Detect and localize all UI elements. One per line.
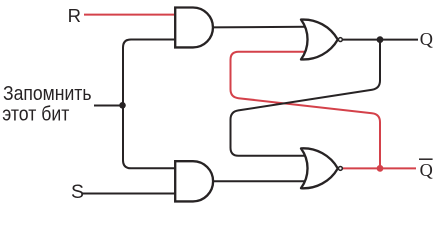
label Q-bar: overline xyxy=(419,158,433,160)
svg-text:S: S xyxy=(71,181,84,203)
nor-gate G4 inversion bubble xyxy=(338,166,342,170)
svg-text:Q: Q xyxy=(420,160,433,180)
svg-text:R: R xyxy=(68,5,81,26)
wire from label Запомнить этот бит to branch vertical xyxy=(94,105,123,107)
wire input branch (black): AND1 lower input down to AND2 upper input xyxy=(123,40,179,169)
nor-gate G3 inversion bubble xyxy=(338,38,342,42)
wire AND2 output to NOR2 lower input xyxy=(209,180,306,182)
wire red feedback: Q-bar node to NOR1 lower input xyxy=(231,52,381,169)
svg-text:этот бит: этот бит xyxy=(2,103,69,125)
junction dot on Q-bar node (red) xyxy=(377,165,384,172)
wire AND1 output to NOR1 upper input xyxy=(209,26,306,29)
junction dot on Q node xyxy=(377,36,384,43)
nor-gate G3 (top NOR) body xyxy=(301,20,338,60)
wire black feedback: Q node to NOR2 upper input xyxy=(231,40,381,156)
nor-gate G4 (bottom NOR) body xyxy=(301,148,338,188)
and-gate G2 (bottom AND) xyxy=(175,161,213,201)
wire NOR1 output to Q xyxy=(338,39,418,41)
wire S input to AND2 xyxy=(82,193,179,195)
wire R input (red) from label R to AND1 xyxy=(84,14,179,16)
svg-text:Q: Q xyxy=(420,29,433,49)
junction dot on input branch xyxy=(119,102,126,109)
svg-text:Запомнить: Запомнить xyxy=(3,83,92,105)
and-gate G1 (top AND) xyxy=(175,8,213,48)
wire NOR2 output to Q-bar (red) xyxy=(338,167,416,169)
